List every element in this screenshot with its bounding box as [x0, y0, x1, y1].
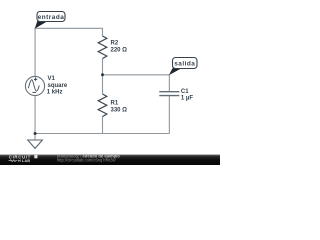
- wire middle rail between R2 and R1: [102, 59, 104, 94]
- wire below C1 to bottom rail: [168, 96, 170, 134]
- svg-text:LAB: LAB: [22, 159, 30, 163]
- svg-text:entrada: entrada: [38, 14, 65, 21]
- svg-text:C1: C1: [181, 89, 189, 95]
- svg-text:1 µF: 1 µF: [181, 96, 193, 102]
- svg-text:R1: R1: [111, 100, 119, 106]
- svg-text:R2: R2: [111, 40, 119, 46]
- CircuitLab logo: [9, 154, 38, 163]
- resistor R1: [98, 94, 107, 117]
- resistor R2: [98, 36, 107, 59]
- svg-text:http://circuitlab.com/c6nq7rfv: http://circuitlab.com/c6nq7rfvt3x/: [57, 157, 117, 162]
- voltage source V1: [25, 76, 44, 95]
- svg-text:V1: V1: [48, 76, 56, 82]
- wire top: entrada corner to R2 top: [35, 28, 102, 76]
- svg-text:1 kHz: 1 kHz: [47, 90, 63, 96]
- svg-text:square: square: [48, 83, 68, 89]
- wire bottom rail: [35, 133, 169, 135]
- capacitor C1: [159, 92, 179, 96]
- junction node at R2/R1 tap: [101, 73, 104, 76]
- svg-text:salida: salida: [174, 60, 195, 67]
- net label salida: [169, 58, 197, 76]
- wire V1 bottom to ground: [34, 96, 36, 141]
- junction node at V1/ground/bottom rail: [34, 132, 37, 135]
- svg-text:220 Ω: 220 Ω: [111, 48, 128, 54]
- wire below R1: [102, 117, 104, 134]
- wire middle horizontal to salida corner: [103, 75, 170, 91]
- ground: [28, 140, 43, 148]
- svg-text:330 Ω: 330 Ω: [111, 108, 128, 114]
- net label entrada: [35, 12, 65, 29]
- footer credit text: [57, 153, 120, 162]
